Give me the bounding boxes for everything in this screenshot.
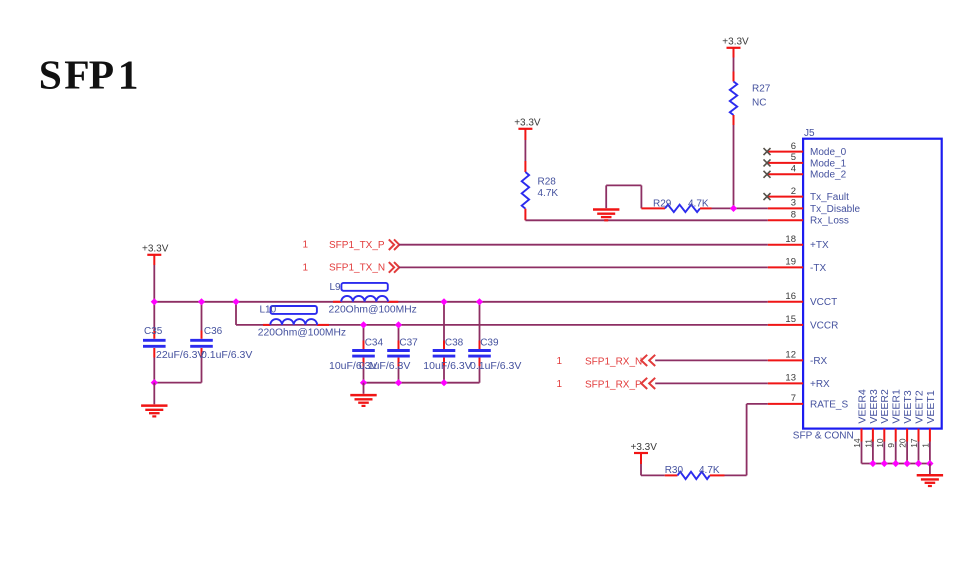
svg-text:F: F xyxy=(64,52,89,98)
svg-text:3: 3 xyxy=(791,198,796,209)
svg-text:+3.3V: +3.3V xyxy=(722,37,749,48)
svg-text:5: 5 xyxy=(791,152,796,163)
svg-text:P: P xyxy=(89,52,114,98)
svg-text:6: 6 xyxy=(791,141,796,152)
svg-text:VCCR: VCCR xyxy=(810,320,838,331)
svg-text:1: 1 xyxy=(303,240,309,251)
svg-text:10: 10 xyxy=(875,438,885,448)
svg-text:R27: R27 xyxy=(752,84,771,95)
svg-text:2: 2 xyxy=(791,186,796,197)
svg-text:13: 13 xyxy=(785,373,796,384)
svg-text:-TX: -TX xyxy=(810,263,826,274)
svg-text:17: 17 xyxy=(909,438,919,448)
svg-text:C39: C39 xyxy=(480,338,499,349)
svg-text:4: 4 xyxy=(791,164,796,175)
svg-text:0.1uF/6.3V: 0.1uF/6.3V xyxy=(359,360,410,372)
svg-text:C37: C37 xyxy=(399,338,418,349)
svg-text:RATE_S: RATE_S xyxy=(810,399,848,410)
svg-text:-RX: -RX xyxy=(810,356,828,367)
svg-text:+3.3V: +3.3V xyxy=(631,442,658,453)
svg-text:NC: NC xyxy=(752,98,766,109)
svg-text:16: 16 xyxy=(785,291,796,302)
svg-text:8: 8 xyxy=(791,210,796,221)
svg-text:12: 12 xyxy=(785,350,796,361)
svg-text:+TX: +TX xyxy=(810,240,829,251)
svg-text:1: 1 xyxy=(557,356,563,367)
svg-text:Mode_1: Mode_1 xyxy=(810,158,847,169)
svg-text:SFP1_RX_P: SFP1_RX_P xyxy=(585,379,642,390)
svg-text:220Ohm@100MHz: 220Ohm@100MHz xyxy=(329,304,417,315)
svg-text:4.7K: 4.7K xyxy=(538,188,559,199)
svg-text:1: 1 xyxy=(920,443,930,448)
svg-text:C36: C36 xyxy=(204,326,223,337)
svg-text:220Ohm@100MHz: 220Ohm@100MHz xyxy=(258,328,346,339)
svg-text:+3.3V: +3.3V xyxy=(514,118,541,129)
svg-text:Rx_Loss: Rx_Loss xyxy=(810,216,849,227)
svg-text:15: 15 xyxy=(785,314,796,325)
svg-text:+3.3V: +3.3V xyxy=(142,244,169,255)
svg-text:14: 14 xyxy=(852,438,862,448)
svg-text:20: 20 xyxy=(898,438,908,448)
svg-text:L9: L9 xyxy=(330,282,342,293)
svg-text:1: 1 xyxy=(557,379,563,390)
svg-text:1: 1 xyxy=(303,262,309,273)
svg-text:C35: C35 xyxy=(144,326,163,337)
svg-text:Mode_2: Mode_2 xyxy=(810,170,847,181)
svg-text:VEER4: VEER4 xyxy=(856,389,868,424)
svg-text:Tx_Disable: Tx_Disable xyxy=(810,204,860,215)
svg-text:7: 7 xyxy=(791,393,796,404)
svg-text:18: 18 xyxy=(785,234,796,245)
svg-text:VEET2: VEET2 xyxy=(913,390,925,423)
svg-text:19: 19 xyxy=(785,257,796,268)
svg-text:SFP1_TX_N: SFP1_TX_N xyxy=(329,263,385,274)
svg-text:VCCT: VCCT xyxy=(810,297,837,308)
svg-text:SFP & CONN: SFP & CONN xyxy=(793,431,854,442)
svg-text:SFP1_TX_P: SFP1_TX_P xyxy=(329,240,385,251)
svg-text:VEET3: VEET3 xyxy=(902,390,914,423)
svg-text:S: S xyxy=(39,52,62,98)
svg-text:Mode_0: Mode_0 xyxy=(810,147,847,158)
svg-text:VEET1: VEET1 xyxy=(925,390,937,423)
svg-text:1: 1 xyxy=(118,52,139,98)
svg-text:J5: J5 xyxy=(804,128,815,139)
svg-text:22uF/6.3V: 22uF/6.3V xyxy=(156,349,204,361)
svg-text:VEER3: VEER3 xyxy=(868,389,880,424)
svg-text:9: 9 xyxy=(886,443,896,448)
svg-text:0.1uF/6.3V: 0.1uF/6.3V xyxy=(201,349,252,361)
svg-text:C38: C38 xyxy=(445,338,464,349)
svg-text:VEER2: VEER2 xyxy=(879,389,891,424)
svg-text:0.1uF/6.3V: 0.1uF/6.3V xyxy=(470,360,521,372)
svg-text:11: 11 xyxy=(863,439,873,448)
svg-text:+RX: +RX xyxy=(810,379,830,390)
svg-text:4.7K: 4.7K xyxy=(688,199,709,210)
svg-text:10uF/6.3V: 10uF/6.3V xyxy=(423,360,471,372)
svg-text:C34: C34 xyxy=(365,338,384,349)
svg-text:R29: R29 xyxy=(653,199,672,210)
svg-text:Tx_Fault: Tx_Fault xyxy=(810,192,849,203)
svg-text:4.7K: 4.7K xyxy=(699,465,720,476)
svg-text:L10: L10 xyxy=(260,304,277,315)
svg-text:SFP1_RX_N: SFP1_RX_N xyxy=(585,356,642,367)
svg-text:R28: R28 xyxy=(538,177,557,188)
svg-text:R30: R30 xyxy=(665,465,684,476)
svg-text:VEER1: VEER1 xyxy=(891,389,903,424)
